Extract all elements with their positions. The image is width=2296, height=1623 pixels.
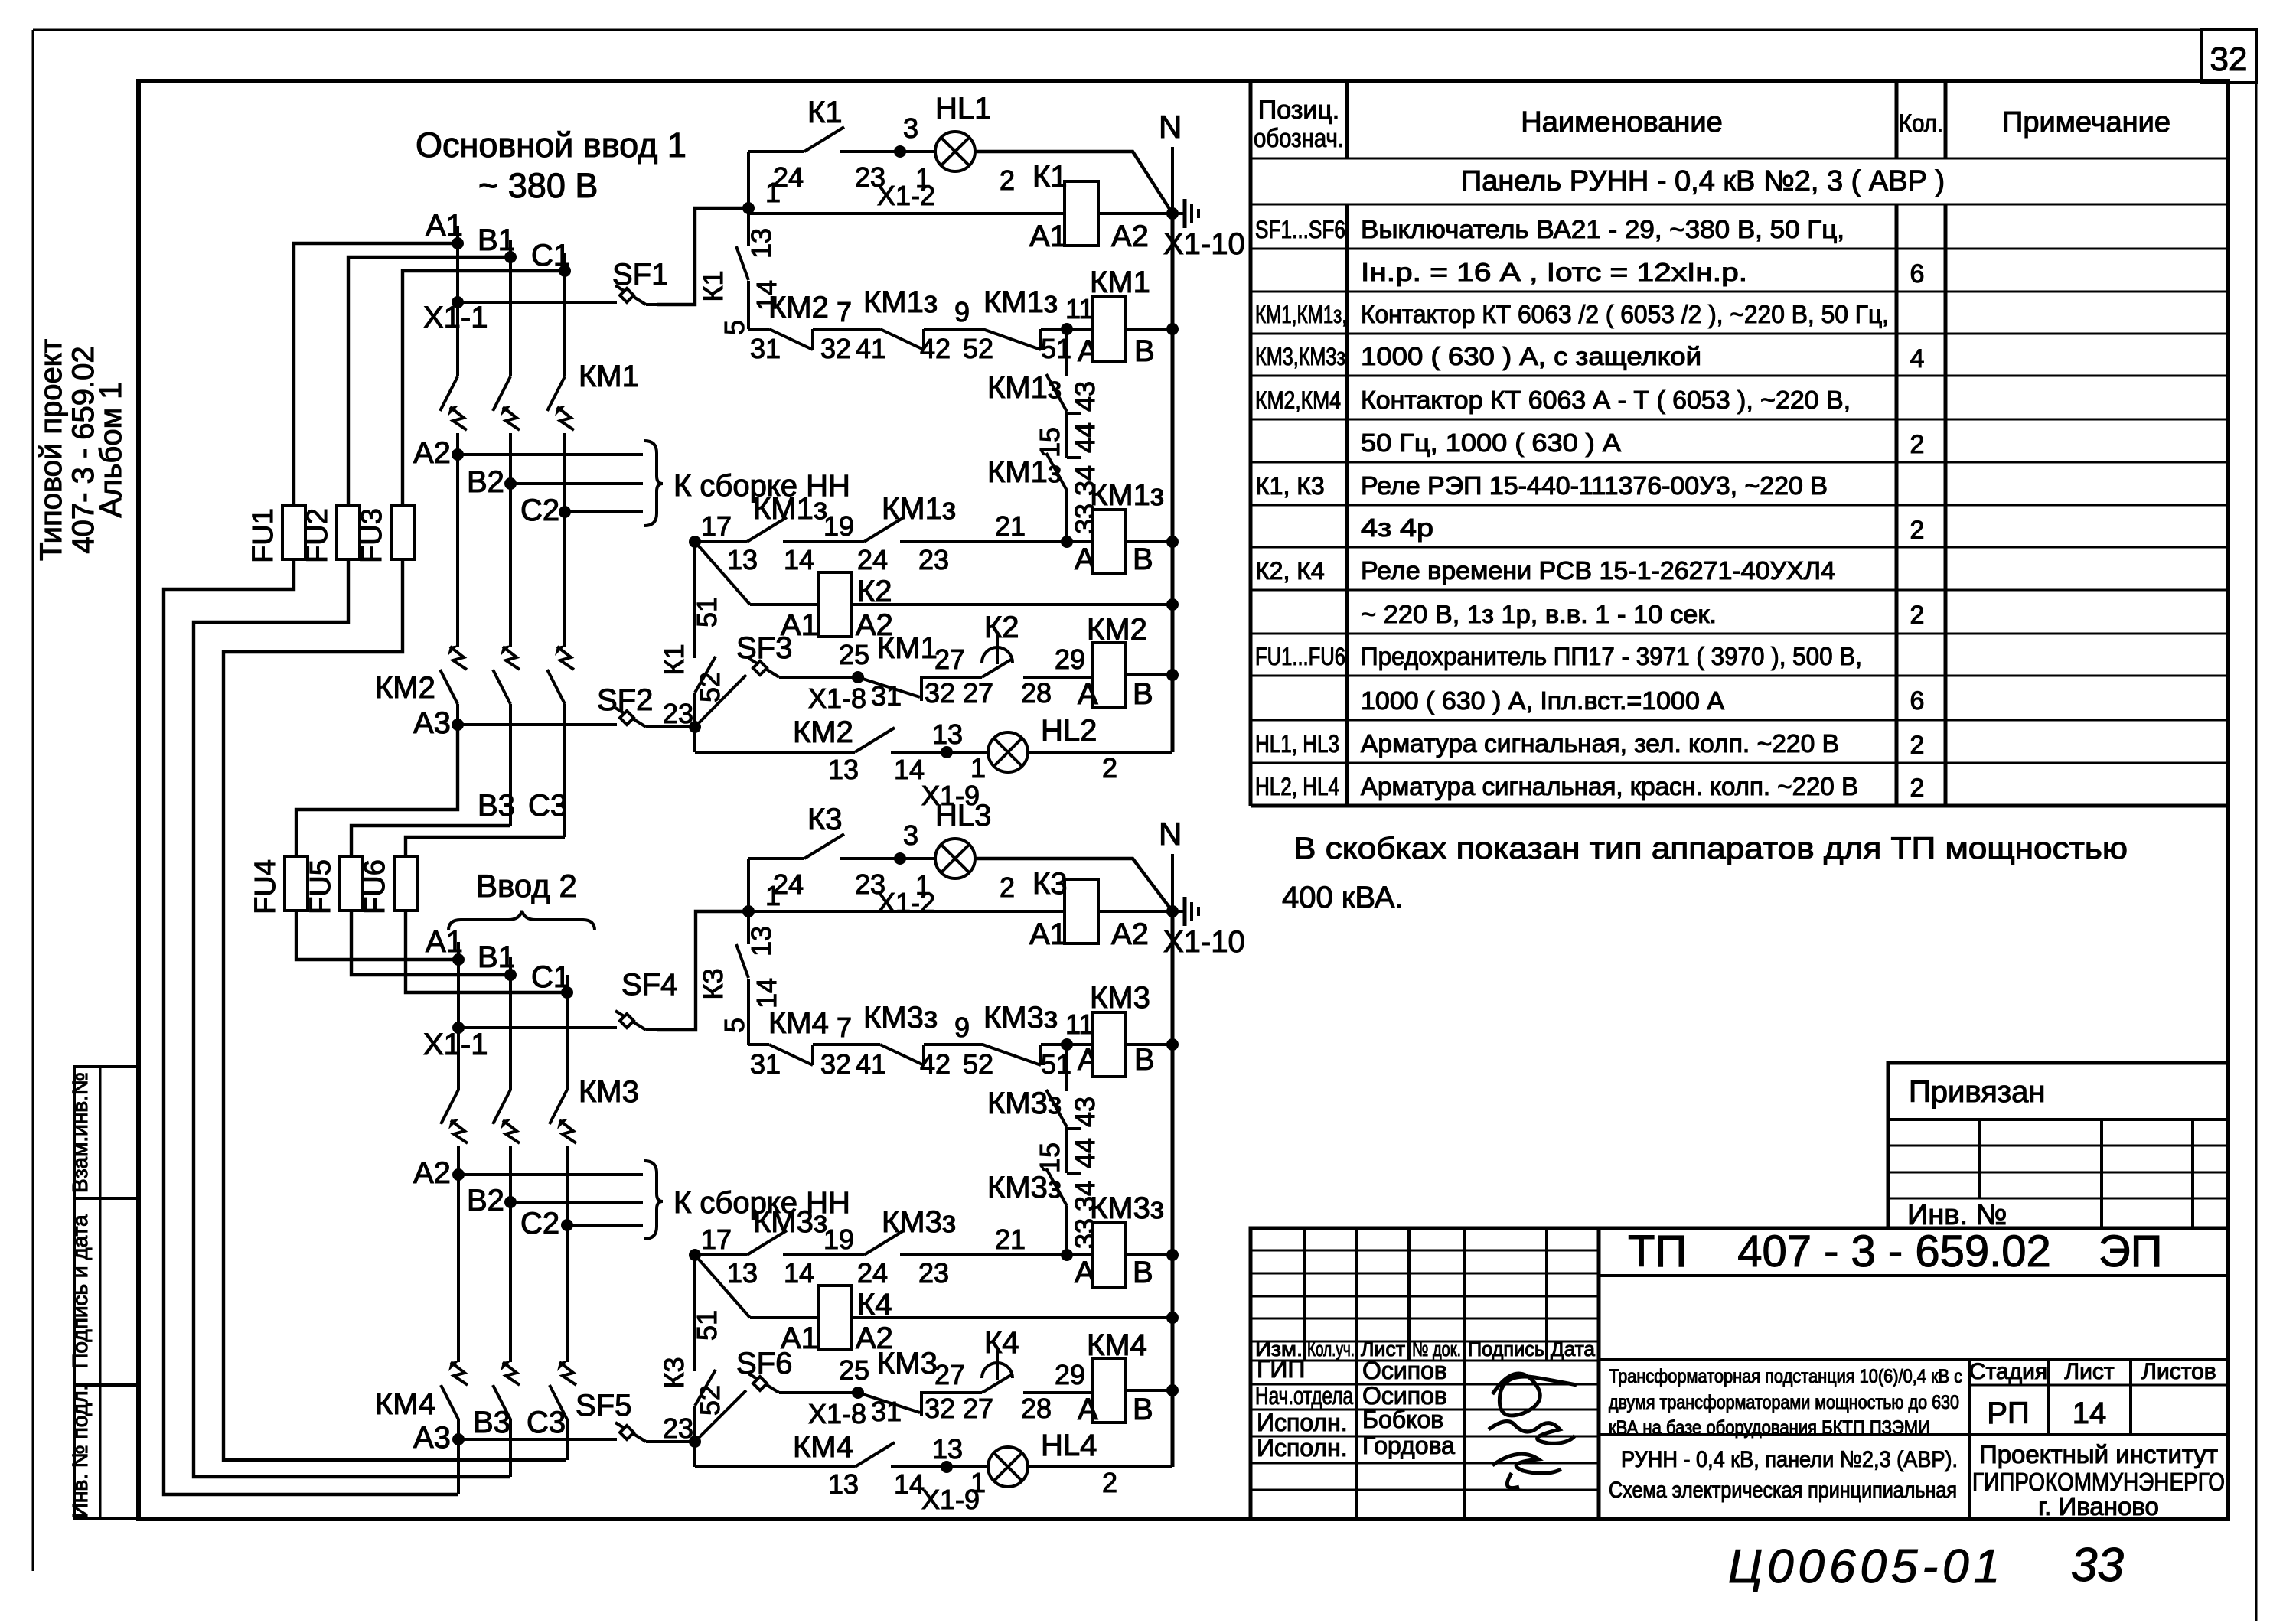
svg-text:В: В: [1133, 1393, 1153, 1426]
svg-text:~ 380 В: ~ 380 В: [478, 166, 598, 205]
row K3 coil wire: [748, 910, 1065, 913]
svg-text:КМ1з: КМ1з: [863, 285, 938, 319]
svg-text:27: 27: [934, 644, 965, 675]
wire HL4 to N column: [1028, 1465, 1172, 1468]
terminal X1-10 + ground (top): [1166, 207, 1179, 220]
svg-text:КМ2: КМ2: [793, 715, 853, 749]
svg-text:44: 44: [1069, 1138, 1101, 1168]
svg-text:Х1-8: Х1-8: [808, 683, 866, 714]
contact KM3z 24-23 (row3): [864, 1230, 904, 1255]
node A2 (lower): [452, 1168, 465, 1181]
contact KM2 13-14: [855, 728, 895, 752]
contact K1 51-52 on left column: [693, 542, 696, 658]
svg-text:32: 32: [820, 1048, 851, 1080]
wire B2 to LV: [510, 482, 643, 485]
contact KM3 31-32 NC: [858, 1393, 920, 1413]
svg-text:17: 17: [701, 510, 732, 542]
svg-text:28: 28: [1021, 1393, 1052, 1424]
svg-text:23: 23: [663, 698, 693, 729]
svg-text:В: В: [1134, 1043, 1155, 1077]
svg-text:Гордова: Гордова: [1362, 1432, 1455, 1459]
brace over Vvod 2: [448, 911, 595, 930]
svg-text:КМ3: КМ3: [1090, 981, 1150, 1015]
svg-text:7: 7: [837, 1012, 852, 1043]
svg-text:А3: А3: [413, 1421, 451, 1455]
brace to LV assembly (lower): [644, 1161, 663, 1239]
svg-text:15: 15: [1034, 1142, 1065, 1173]
svg-text:Дата: Дата: [1551, 1338, 1596, 1361]
wire B column to FU5: [351, 826, 510, 856]
svg-text:14: 14: [894, 754, 925, 785]
svg-text:13: 13: [932, 1433, 963, 1465]
svg-text:27: 27: [963, 677, 993, 709]
wire A3 to bottom bus: [457, 1439, 460, 1494]
node 11-A (top row3): [1061, 536, 1073, 548]
node A (lower row3): [1061, 1249, 1073, 1261]
svg-text:43: 43: [1069, 381, 1101, 412]
svg-text:51: 51: [691, 597, 722, 627]
svg-text:В: В: [1133, 677, 1153, 711]
svg-text:ТП: ТП: [1628, 1227, 1687, 1276]
svg-text:3: 3: [903, 112, 918, 144]
row KM1 coil: contact chain: [748, 328, 769, 331]
svg-text:17: 17: [701, 1224, 732, 1255]
contactor coil KM1: [1092, 297, 1126, 361]
contact KM3z 52-51: [983, 1045, 1041, 1065]
svg-text:А1: А1: [1029, 220, 1067, 253]
svg-text:15: 15: [1034, 427, 1065, 458]
contact KM3z 13-14 (row3): [695, 1253, 747, 1256]
svg-text:А1: А1: [426, 209, 463, 243]
relay contact K1 24-23 (lamp branch): [748, 150, 804, 153]
contact KM1z 52-51: [983, 329, 1041, 350]
svg-text:13: 13: [745, 926, 777, 957]
svg-text:А2: А2: [413, 1156, 451, 1190]
project name cell: [1599, 1358, 2228, 1361]
svg-text:23: 23: [663, 1413, 693, 1444]
svg-text:25: 25: [839, 1354, 869, 1386]
svg-text:Осипов: Осипов: [1362, 1357, 1447, 1384]
signatures (squiggles): [1492, 1374, 1577, 1416]
branch to K4 coil: [695, 1255, 750, 1318]
svg-text:Реле времени РСВ 15-1-26271-: Реле времени РСВ 15-1-26271-40УХЛ4: [1361, 556, 1835, 585]
relay coil K1: [1065, 181, 1098, 246]
svg-text:4: 4: [1910, 344, 1925, 373]
svg-text:FU4: FU4: [249, 859, 282, 914]
svg-text:2: 2: [1000, 165, 1015, 196]
svg-text:С2: С2: [520, 494, 559, 527]
wire C2 to LV: [565, 510, 643, 513]
svg-text:С1: С1: [531, 239, 570, 272]
auxiliary contact KM3z 33-34: [1046, 1168, 1067, 1206]
fuse FU3: [391, 505, 414, 559]
svg-text:HL2, HL4: HL2, HL4: [1255, 773, 1339, 800]
contactor coil KM4: [1092, 1358, 1126, 1423]
wire FU1 to left bus A: [164, 559, 458, 1494]
svg-text:КМ3з: КМ3з: [987, 1171, 1062, 1204]
svg-text:В1: В1: [478, 940, 515, 974]
svg-text:К1: К1: [1032, 160, 1068, 194]
svg-text:44: 44: [1069, 422, 1101, 453]
svg-text:31: 31: [871, 1396, 902, 1427]
terminal X1-8 (top): [790, 676, 858, 679]
svg-text:13: 13: [932, 719, 963, 750]
fuse FU5: [340, 856, 363, 911]
svg-text:1: 1: [915, 162, 931, 194]
branch to K2 coil: [695, 542, 750, 605]
svg-text:А: А: [1078, 1393, 1098, 1426]
node A3 (lower): [452, 1433, 465, 1445]
svg-text:Позиц.: Позиц.: [1258, 96, 1339, 125]
signal lamp HL3: [900, 857, 935, 860]
auxiliary contact KM1z 33-34: [1046, 453, 1067, 490]
svg-text:Альбом 1: Альбом 1: [94, 383, 128, 518]
wire FU5 to lower B1: [351, 911, 510, 975]
svg-text:Кол.уч.: Кол.уч.: [1307, 1338, 1355, 1361]
terminal X1-2 (lower): [894, 852, 906, 865]
svg-text:Лист: Лист: [2064, 1359, 2114, 1384]
row HL2: [693, 727, 696, 752]
svg-text:19: 19: [823, 510, 854, 542]
svg-text:FU2: FU2: [302, 508, 334, 563]
svg-text:А2: А2: [1111, 917, 1149, 951]
title block: [1251, 1228, 2228, 1519]
svg-text:51: 51: [691, 1310, 722, 1341]
signal lamp HL4: [947, 1465, 988, 1468]
wire SF4 to lower junction: [657, 911, 748, 1030]
contact KM3z 41-42: [880, 1045, 924, 1065]
wire X1-1 to SF4: [458, 1026, 617, 1029]
wire SF2 to node 23: [657, 725, 695, 728]
svg-text:407 - 3 - 659.02: 407 - 3 - 659.02: [1737, 1227, 2051, 1276]
svg-text:32: 32: [925, 677, 955, 709]
wire 44 to 34: [1067, 412, 1081, 415]
svg-text:HL4: HL4: [1041, 1429, 1097, 1462]
terminal X1-1 (top): [452, 296, 464, 308]
wire FU6 to lower C1: [406, 911, 567, 992]
terminal X1-9 (lower): [941, 1461, 953, 1473]
wire K2 coil to N: [852, 603, 1172, 606]
svg-text:23: 23: [918, 1257, 949, 1289]
wire junction up to lamp branch (lower): [747, 859, 750, 911]
svg-text:В: В: [1133, 1256, 1153, 1289]
svg-text:КМ1з: КМ1з: [983, 285, 1058, 319]
svg-text:В2: В2: [467, 1184, 504, 1217]
svg-text:2: 2: [1910, 601, 1925, 630]
svg-text:Х1-10: Х1-10: [1163, 227, 1245, 261]
svg-text:14: 14: [784, 544, 814, 575]
svg-text:Ц00605-01: Ц00605-01: [1728, 1540, 2004, 1593]
svg-text:13: 13: [727, 1257, 758, 1289]
svg-text:А2: А2: [413, 436, 451, 470]
wire lamp to N: [975, 152, 1172, 213]
svg-text:400 кВА.: 400 кВА.: [1282, 881, 1404, 914]
svg-text:КМ1: КМ1: [1090, 266, 1150, 299]
node C1 (top): [559, 265, 571, 277]
svg-text:3: 3: [903, 820, 918, 851]
svg-text:33: 33: [2071, 1539, 2124, 1592]
svg-text:1: 1: [970, 752, 986, 784]
svg-text:42: 42: [920, 333, 951, 364]
svg-text:КМ3: КМ3: [877, 1347, 938, 1380]
N column (lower section): [1171, 911, 1175, 1467]
svg-text:КМ3з: КМ3з: [987, 1087, 1062, 1120]
svg-text:50 Гц, 1000 ( 630 ) А: 50 Гц, 1000 ( 630 ) А: [1361, 429, 1621, 457]
terminal X1-1 (lower): [452, 1022, 465, 1034]
svg-text:23: 23: [918, 544, 949, 575]
svg-text:КМ2: КМ2: [375, 671, 435, 705]
svg-text:Трансформаторная подстанция 10: Трансформаторная подстанция 10(6)/0,4 кВ…: [1609, 1366, 1962, 1387]
svg-text:РУНН - 0,4 кВ, панели №2,3 (АВ: РУНН - 0,4 кВ, панели №2,3 (АВР).: [1621, 1447, 1958, 1472]
svg-text:5: 5: [719, 320, 750, 335]
N column (top section): [1171, 213, 1175, 752]
svg-text:32: 32: [820, 333, 851, 364]
contactor coil KM3z: [1092, 1223, 1126, 1287]
svg-text:Контактор КТ 6063 /2 ( 6053 /2: Контактор КТ 6063 /2 ( 6053 /2 ), ~220 В…: [1361, 300, 1889, 328]
svg-text:В2: В2: [467, 465, 504, 499]
svg-text:Ввод 2: Ввод 2: [476, 868, 577, 904]
auxiliary contact KM3z 43-44: [1065, 1045, 1068, 1091]
wire lamp to N (lower): [975, 859, 1172, 911]
fuse FU4: [285, 856, 308, 911]
svg-text:КМ1з: КМ1з: [987, 455, 1062, 489]
node C1 (lower): [561, 986, 573, 999]
svg-text:2: 2: [1910, 430, 1925, 459]
svg-text:HL3: HL3: [935, 799, 991, 833]
contact KM1 31-32 NC: [858, 677, 920, 697]
node A2 (top): [452, 448, 464, 461]
auxiliary contact KM1z 43-44: [1065, 329, 1068, 376]
svg-text:FU5: FU5: [305, 859, 337, 914]
svg-text:HL1: HL1: [935, 92, 991, 125]
svg-text:К1: К1: [697, 271, 729, 302]
svg-text:С3: С3: [528, 789, 567, 823]
relay coil K4 (time relay): [750, 1316, 818, 1319]
svg-text:FU3: FU3: [356, 508, 388, 563]
wire A2 to LV (lower): [458, 1173, 643, 1176]
wire FU2 to left bus B: [194, 559, 510, 1477]
left margin stamp table: [74, 1067, 139, 1519]
node 11 (top): [1061, 323, 1073, 335]
svg-text:24: 24: [857, 1257, 888, 1289]
svg-text:КМ2: КМ2: [1087, 613, 1147, 647]
svg-text:29: 29: [1055, 1359, 1085, 1390]
svg-text:К3: К3: [697, 969, 729, 1000]
node C2 (lower): [561, 1219, 573, 1231]
contactor KM2 main contacts: [456, 455, 459, 647]
terminal X1-10 + ground (lower): [1166, 905, 1179, 917]
node 23 (top): [689, 721, 701, 733]
contactor coil KM1z: [1092, 510, 1126, 574]
svg-text:HL2: HL2: [1041, 714, 1097, 748]
terminal X1-9 (top): [941, 746, 953, 758]
svg-text:Кол.: Кол.: [1899, 109, 1943, 137]
svg-text:С1: С1: [531, 960, 570, 994]
svg-text:6: 6: [1910, 259, 1925, 288]
wire SF1 to junction: [657, 208, 748, 305]
svg-text:N: N: [1159, 816, 1182, 852]
svg-text:В: В: [1134, 334, 1155, 368]
svg-text:9: 9: [954, 296, 970, 328]
svg-text:13: 13: [828, 754, 859, 785]
node 23 (lower): [689, 1436, 701, 1448]
svg-text:25: 25: [839, 639, 869, 670]
brace to LV assembly (top): [644, 441, 663, 526]
svg-text:Основной ввод 1: Основной ввод 1: [416, 125, 687, 165]
svg-text:Нач.отдела: Нач.отдела: [1255, 1382, 1353, 1410]
svg-text:двумя трансформаторами мощност: двумя трансформаторами мощностью до 630: [1609, 1392, 1959, 1413]
svg-text:29: 29: [1055, 644, 1085, 675]
svg-text:КМ1: КМ1: [579, 360, 639, 393]
svg-text:32: 32: [2210, 41, 2248, 78]
svg-text:FU1...FU6: FU1...FU6: [1255, 643, 1345, 670]
contact K3 51-52 on left column: [693, 1255, 696, 1371]
node C2 (top): [559, 506, 571, 518]
svg-text:КМ4: КМ4: [793, 1430, 853, 1464]
svg-text:Арматура сигнальная, зел. к: Арматура сигнальная, зел. колп. ~220 В: [1361, 729, 1839, 758]
svg-text:КМ1з: КМ1з: [882, 492, 956, 526]
svg-text:обознач.: обознач.: [1254, 124, 1344, 153]
svg-text:13: 13: [727, 544, 758, 575]
svg-text:К2, К4: К2, К4: [1255, 557, 1325, 585]
svg-text:42: 42: [920, 1048, 951, 1080]
document number cell: [1599, 1274, 2228, 1277]
signal lamp HL2: [947, 751, 988, 754]
svg-text:Контактор КТ 6063 А - Т ( 605: Контактор КТ 6063 А - Т ( 6053 ), ~220 В…: [1361, 386, 1851, 414]
svg-text:Iн.р. = 16 А , Iотс = 12хIн.р: Iн.р. = 16 А , Iотс = 12хIн.р.: [1361, 258, 1747, 286]
svg-text:2: 2: [1910, 731, 1925, 760]
relay coil K2 (time relay): [750, 603, 818, 606]
svg-text:2: 2: [1102, 1467, 1117, 1498]
institute cell: [1969, 1433, 2228, 1436]
privyazan table: [1888, 1063, 2228, 1228]
row KM3z coil: [689, 1249, 701, 1261]
wire A3 to SF2: [458, 723, 617, 726]
svg-text:КМ1з: КМ1з: [1090, 478, 1164, 512]
fuse FU1: [282, 505, 305, 559]
svg-text:52: 52: [963, 333, 993, 364]
svg-text:РП: РП: [1987, 1396, 2029, 1430]
svg-text:КМ2: КМ2: [768, 291, 829, 324]
svg-text:Х1-1: Х1-1: [423, 1028, 488, 1061]
svg-text:Реле РЭП 15-440-111376-00У3,: Реле РЭП 15-440-111376-00У3, ~220 В: [1361, 471, 1828, 500]
svg-text:2: 2: [1910, 774, 1925, 803]
phase column stubs lower: [457, 942, 460, 960]
svg-text:SF3: SF3: [736, 631, 792, 665]
svg-text:Подпись: Подпись: [1468, 1338, 1544, 1361]
svg-text:КМ1з: КМ1з: [987, 371, 1062, 405]
svg-text:Исполн.: Исполн.: [1257, 1434, 1348, 1462]
svg-text:14: 14: [784, 1257, 814, 1289]
svg-text:1: 1: [915, 869, 931, 901]
wire C column to FU6: [406, 837, 565, 856]
svg-text:Предохранитель ПП17 - 3971 (: Предохранитель ПП17 - 3971 ( 3970 ), 500…: [1361, 642, 1862, 670]
wire SF5 to node 23 (lower): [657, 1440, 695, 1443]
node A3 (top): [452, 719, 464, 731]
svg-text:Х1-1: Х1-1: [423, 301, 488, 334]
sheet number box 32: [2201, 30, 2256, 83]
svg-text:КМ4: КМ4: [1087, 1328, 1147, 1362]
svg-text:Схема электрическая принципиал: Схема электрическая принципиальная: [1609, 1478, 1957, 1503]
svg-text:Бобков: Бобков: [1362, 1406, 1443, 1433]
signal lamp HL1: [900, 150, 935, 153]
branch SF3: [695, 675, 746, 727]
svg-text:41: 41: [856, 333, 886, 364]
wire HL2 to N column: [1028, 751, 1172, 754]
contactor coil KM2: [1092, 643, 1126, 707]
svg-text:14: 14: [751, 978, 782, 1009]
node 11 (lower): [1061, 1038, 1073, 1051]
contact KM1z 13-14: [695, 540, 747, 543]
wire C1 tap to FU3: [403, 271, 565, 505]
svg-text:Типовой проект: Типовой проект: [34, 339, 68, 561]
svg-text:2: 2: [1000, 872, 1015, 903]
row HL4: [693, 1442, 696, 1467]
wire C2 to LV (lower): [567, 1224, 643, 1227]
row K1 coil wire: [748, 212, 1065, 215]
svg-text:КМ4: КМ4: [375, 1387, 435, 1421]
svg-text:Исполн.: Исполн.: [1257, 1409, 1348, 1436]
contact KM1z 41-42: [880, 329, 924, 350]
svg-text:~ 220 В, 1з 1р, в.в. 1 - 10 се: ~ 220 В, 1з 1р, в.в. 1 - 10 сек.: [1361, 600, 1717, 628]
svg-text:Арматура сигнальная, красн.: Арматура сигнальная, красн. колп. ~220 В: [1361, 772, 1858, 800]
svg-text:Листов: Листов: [2141, 1359, 2216, 1384]
svg-text:24: 24: [773, 869, 804, 900]
svg-text:ГИП: ГИП: [1257, 1355, 1305, 1383]
svg-text:Взам.инв.№: Взам.инв.№: [68, 1072, 92, 1193]
svg-text:31: 31: [750, 333, 781, 364]
svg-text:А1: А1: [1029, 917, 1067, 951]
svg-text:К2: К2: [984, 611, 1019, 644]
svg-text:К3: К3: [658, 1357, 690, 1389]
fuse FU6: [394, 856, 417, 911]
contactor KM1 main contacts: [456, 243, 459, 376]
svg-text:13: 13: [745, 228, 777, 259]
svg-text:С3: С3: [527, 1406, 566, 1439]
time contact K4 27-28: [982, 1375, 1011, 1393]
svg-text:КМ3,КМ3з: КМ3,КМ3з: [1255, 343, 1345, 370]
svg-text:К1: К1: [807, 96, 843, 129]
svg-text:5: 5: [719, 1018, 750, 1033]
svg-text:С2: С2: [520, 1207, 559, 1240]
svg-text:ЭП: ЭП: [2099, 1227, 2162, 1276]
svg-text:К4: К4: [984, 1326, 1019, 1360]
stage/sheet cells: [1968, 1360, 1971, 1519]
svg-text:К3: К3: [807, 803, 843, 836]
svg-text:В скобках показан тип аппа: В скобках показан тип аппаратов для ТП м…: [1293, 832, 2128, 865]
svg-text:1000 ( 630 ) А, с защелкой: 1000 ( 630 ) А, с защелкой: [1361, 342, 1701, 370]
row KM3 coil: contact chain: [748, 1043, 769, 1046]
svg-text:14: 14: [2073, 1396, 2107, 1430]
svg-text:В: В: [1133, 543, 1153, 576]
svg-text:31: 31: [871, 680, 902, 712]
svg-text:В3: В3: [478, 789, 515, 823]
svg-text:КМ1,КМ1з,: КМ1,КМ1з,: [1255, 301, 1347, 328]
junction node 1 (top): [742, 202, 755, 214]
svg-text:КМ4: КМ4: [768, 1006, 829, 1040]
svg-text:19: 19: [823, 1224, 854, 1255]
svg-text:А: А: [1078, 677, 1098, 711]
svg-text:В1: В1: [478, 223, 515, 257]
svg-text:2: 2: [1102, 752, 1117, 784]
svg-text:SF1...SF6: SF1...SF6: [1255, 216, 1345, 243]
svg-text:SF4: SF4: [621, 968, 677, 1002]
svg-text:13: 13: [828, 1468, 859, 1500]
svg-text:г. Иваново: г. Иваново: [2038, 1492, 2159, 1520]
svg-text:14: 14: [894, 1468, 925, 1500]
wire KM1 coil to N column: [1126, 328, 1172, 331]
contactor KM3 main contacts: [457, 960, 460, 1090]
